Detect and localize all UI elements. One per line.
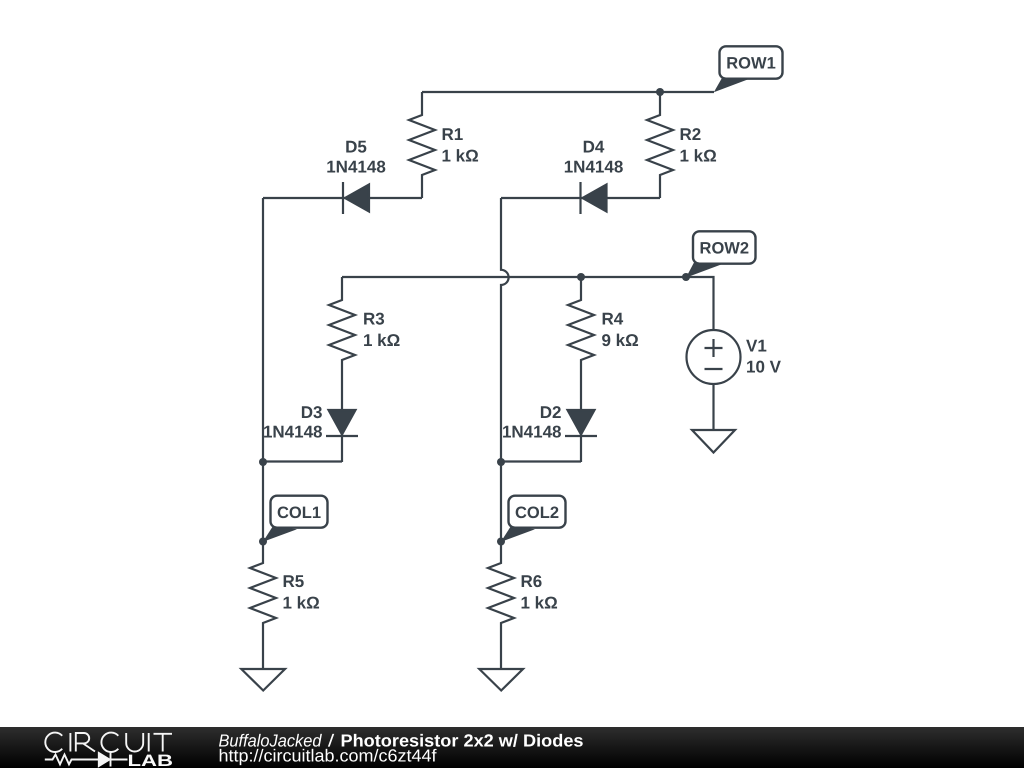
svg-text:ROW1: ROW1 bbox=[726, 55, 776, 73]
ground V1 bbox=[692, 430, 735, 453]
wire left column lower bbox=[262, 462, 264, 542]
svg-text:1 kΩ: 1 kΩ bbox=[363, 331, 400, 350]
node COL1 bbox=[263, 496, 328, 542]
wire D5 row bbox=[263, 197, 422, 199]
diode D2 bbox=[565, 385, 597, 462]
svg-text:R2: R2 bbox=[680, 125, 702, 144]
wire left column bbox=[262, 198, 264, 462]
junction node R4/ROW2 bbox=[577, 273, 585, 281]
svg-text:LAB: LAB bbox=[128, 752, 174, 768]
wire middle column with hop bbox=[501, 198, 509, 462]
junction node R2/ROW1 bbox=[656, 88, 664, 96]
label R5 value bbox=[283, 572, 320, 613]
label R1 value bbox=[442, 125, 479, 166]
ground COL2 bbox=[479, 669, 523, 691]
wire bottom middle bbox=[501, 460, 581, 462]
svg-text:http://circuitlab.com/c6zt44f: http://circuitlab.com/c6zt44f bbox=[219, 746, 437, 766]
resistor R4 bbox=[568, 277, 594, 385]
footer title bbox=[219, 730, 584, 765]
footer logo resistor-diode bbox=[45, 753, 128, 767]
diode D4 bbox=[581, 182, 607, 214]
svg-text:COL1: COL1 bbox=[277, 504, 321, 522]
svg-text:1 kΩ: 1 kΩ bbox=[680, 147, 717, 166]
footer bar bbox=[0, 727, 1024, 768]
label R4 value bbox=[602, 310, 639, 351]
label R3 value bbox=[363, 310, 400, 351]
svg-text:D2: D2 bbox=[540, 403, 562, 422]
label R2 value bbox=[680, 125, 717, 166]
svg-text:D4: D4 bbox=[583, 138, 605, 157]
resistor R5 bbox=[250, 542, 276, 670]
svg-text:R3: R3 bbox=[363, 310, 385, 329]
wire middle column lower bbox=[500, 462, 502, 542]
svg-text:1N4148: 1N4148 bbox=[502, 423, 562, 442]
diode D3 bbox=[326, 385, 358, 462]
svg-text:R6: R6 bbox=[521, 572, 543, 591]
label D3 value bbox=[263, 403, 323, 442]
resistor R2 bbox=[647, 92, 673, 198]
resistor R1 bbox=[409, 92, 435, 198]
label V1 value bbox=[746, 337, 782, 377]
svg-text:9 kΩ: 9 kΩ bbox=[602, 331, 639, 350]
node COL2 bbox=[501, 496, 566, 542]
svg-text:1 kΩ: 1 kΩ bbox=[521, 594, 558, 613]
junction node COL2 flag bbox=[497, 538, 505, 546]
svg-text:R4: R4 bbox=[602, 310, 624, 329]
wire ROW1 top bbox=[422, 91, 714, 93]
svg-text:10 V: 10 V bbox=[746, 358, 782, 377]
junction node bottom left bbox=[259, 458, 267, 466]
voltage source V1 bbox=[687, 330, 741, 430]
junction node COL1 flag bbox=[259, 538, 267, 546]
wire ROW2 bbox=[342, 277, 714, 330]
label D2 value bbox=[502, 403, 562, 442]
diode D5 bbox=[343, 182, 369, 214]
node ROW1 bbox=[714, 46, 783, 92]
wire bottom left bbox=[263, 460, 342, 462]
svg-text:COL2: COL2 bbox=[515, 504, 559, 522]
label R6 value bbox=[521, 572, 558, 613]
label D5 value bbox=[326, 138, 386, 177]
junction node ROW2 flag bbox=[682, 273, 690, 281]
svg-text:V1: V1 bbox=[746, 337, 767, 356]
svg-text:D5: D5 bbox=[345, 138, 367, 157]
node ROW2 bbox=[686, 231, 756, 277]
label D4 value bbox=[564, 138, 624, 177]
svg-text:1N4148: 1N4148 bbox=[326, 158, 386, 177]
svg-text:ROW2: ROW2 bbox=[700, 240, 750, 258]
ground COL1 bbox=[241, 669, 285, 691]
svg-text:1N4148: 1N4148 bbox=[564, 158, 624, 177]
resistor R3 bbox=[329, 277, 355, 385]
wire D4 row bbox=[501, 197, 660, 199]
svg-text:1 kΩ: 1 kΩ bbox=[442, 147, 479, 166]
resistor R6 bbox=[488, 542, 514, 670]
svg-text:1 kΩ: 1 kΩ bbox=[283, 594, 320, 613]
svg-text:1N4148: 1N4148 bbox=[263, 423, 323, 442]
svg-text:R5: R5 bbox=[283, 572, 305, 591]
footer logo LAB bbox=[128, 752, 174, 768]
junction node bottom middle bbox=[497, 458, 505, 466]
svg-text:D3: D3 bbox=[301, 403, 323, 422]
svg-text:R1: R1 bbox=[442, 125, 464, 144]
footer logo CIRCUIT bbox=[45, 733, 172, 752]
